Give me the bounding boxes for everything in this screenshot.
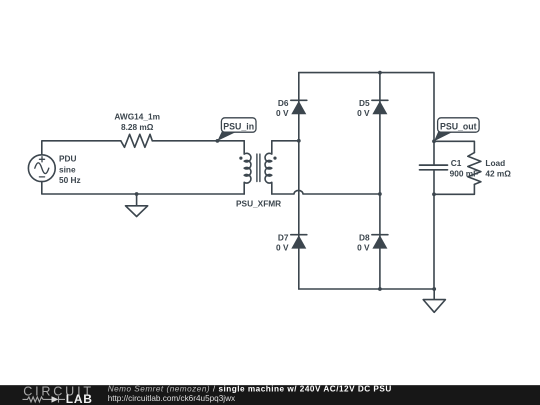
- label PDU sine 50 Hz: [59, 154, 81, 185]
- svg-text:D6: D6: [278, 98, 289, 108]
- footer bar: [0, 385, 540, 405]
- svg-text:0 V: 0 V: [276, 242, 289, 252]
- svg-text:Nemo Semret (nemozen) / single: Nemo Semret (nemozen) / single machine w…: [108, 385, 392, 394]
- wire bridge middle vertical: [379, 73, 381, 289]
- svg-text:PSU_in: PSU_in: [223, 122, 254, 132]
- svg-text:0 V: 0 V: [357, 108, 370, 118]
- svg-text:PSU_out: PSU_out: [440, 122, 477, 132]
- transformer core: [257, 154, 260, 181]
- diode D6: [291, 100, 307, 114]
- svg-text:0 V: 0 V: [276, 108, 289, 118]
- diode D8: [372, 235, 388, 249]
- svg-text:C1: C1: [451, 158, 462, 168]
- diode D5: [372, 100, 388, 114]
- junction C1 Load bottom: [432, 192, 436, 196]
- net flag PSU_out: [432, 118, 479, 143]
- svg-text:D7: D7: [278, 233, 289, 243]
- junction ground left: [135, 192, 139, 196]
- ground right: [423, 289, 445, 312]
- wire bottom left: [42, 182, 244, 194]
- wire bridge top rail: [299, 73, 434, 165]
- transformer PSU_XFMR primary winding: [244, 141, 251, 194]
- ground left: [126, 194, 148, 217]
- diode D7: [291, 235, 307, 249]
- svg-text:LAB: LAB: [66, 392, 93, 405]
- junction bottom rail D8: [378, 287, 382, 291]
- svg-text:AWG14_1m: AWG14_1m: [114, 112, 160, 122]
- svg-text:900 mF: 900 mF: [450, 169, 479, 179]
- wire secondary top to bridge: [272, 140, 299, 142]
- svg-text:PSU_XFMR: PSU_XFMR: [236, 199, 281, 209]
- transformer PSU_XFMR secondary winding: [265, 141, 272, 194]
- junction secondary bottom on bridge: [378, 192, 382, 196]
- junction top rail D5: [378, 71, 382, 75]
- svg-text:sine: sine: [59, 164, 76, 174]
- junction secondary top on bridge: [297, 139, 301, 143]
- svg-text:http://circuitlab.com/ck6r4u5p: http://circuitlab.com/ck6r4u5pq3jwx: [108, 394, 235, 403]
- net flag PSU_in: [216, 118, 257, 143]
- svg-text:Load: Load: [485, 158, 505, 168]
- transformer phase dot secondary: [273, 157, 276, 160]
- wire secondary bottom with hop: [272, 190, 380, 194]
- resistor Load zigzag: [468, 153, 481, 185]
- footer logo mini circuit: [23, 396, 66, 402]
- wire Load bottom: [434, 184, 474, 194]
- voltage source PDU: [28, 155, 55, 182]
- resistor AWG14_1m: [121, 134, 153, 147]
- svg-text:0 V: 0 V: [357, 242, 370, 252]
- resistor Load branch wires: [434, 141, 474, 152]
- svg-text:50 Hz: 50 Hz: [59, 175, 81, 185]
- svg-text:D8: D8: [359, 233, 370, 243]
- wire resistor to transformer: [152, 140, 244, 142]
- capacitor C1: [420, 165, 448, 289]
- wire bridge bottom rail: [299, 288, 434, 290]
- wire bridge left vertical: [298, 73, 300, 289]
- wire source top: [42, 141, 121, 155]
- svg-text:PDU: PDU: [59, 154, 77, 164]
- svg-text:D5: D5: [359, 98, 370, 108]
- svg-text:8.28 mΩ: 8.28 mΩ: [121, 122, 154, 132]
- junction bottom rail ground: [432, 287, 436, 291]
- svg-text:42 mΩ: 42 mΩ: [485, 169, 511, 179]
- transformer phase dot primary: [239, 157, 242, 160]
